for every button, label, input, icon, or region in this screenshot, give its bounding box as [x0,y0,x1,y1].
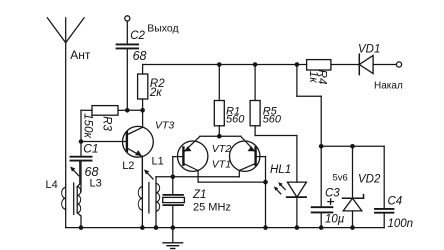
wire VT1 collector to Z1 node [173,171,240,177]
wire C2 bottom lead down to R3 node [126,48,128,110]
transformer core (L4/L3) [73,183,75,214]
svg-text:VD1: VD1 [358,43,380,55]
junction dots bottom rail [79,225,355,230]
transformer core [148,183,150,213]
junction dot VT1 base / VT2 collector [263,180,268,185]
junction dot [140,108,145,113]
wire bottom ground rail [66,227,385,229]
svg-text:560: 560 [263,114,282,126]
svg-text:Выход: Выход [147,23,178,35]
svg-text:HL1: HL1 [270,164,291,176]
svg-text:10µ: 10µ [325,213,345,225]
svg-text:2к: 2к [149,87,162,99]
svg-text:150к: 150к [81,113,93,138]
wire VT2 base to Z1 node [173,157,184,177]
wire VT2 collector down and right [198,171,265,183]
svg-text:100n: 100n [388,218,414,230]
wire R3 left lead down to C1 node [80,110,82,141]
wire filter rail [321,145,384,147]
svg-text:VT1: VT1 [212,158,231,170]
diode VD1 [359,54,373,74]
wire R5 to HL1 anode [255,136,297,183]
transistor VT2 [178,136,208,171]
wire C2 top lead [126,21,128,44]
svg-text:C3: C3 [325,188,340,200]
zener diode VD2 [343,146,364,227]
wire R4 node jog to filter node [297,65,321,147]
resistor R4 [307,60,331,70]
wire VT3 collector to node [142,110,144,127]
svg-text:VD2: VD2 [358,173,381,185]
svg-text:L3: L3 [90,178,102,190]
svg-text:L1: L1 [152,155,164,167]
wire emitter rail VT1/VT2 [200,135,241,137]
svg-text:R3: R3 [100,116,112,131]
wire VT3 emitter down to L2 [141,156,143,190]
LED HL1 [287,182,307,228]
svg-text:5v6: 5v6 [333,173,348,184]
svg-text:68: 68 [133,49,147,63]
tuning arrow (L4/L3) [70,167,79,176]
transistor VT1 [230,136,260,171]
svg-text:C2: C2 [130,30,145,42]
svg-text:L2: L2 [122,160,134,172]
junction dot [125,108,130,113]
capacitor C1 [71,142,92,193]
inductor L2 [138,156,142,227]
svg-text:Ант: Ант [70,48,91,62]
transistor VT3 [122,126,153,157]
resistor R1 [214,65,224,137]
capacitor C4 [375,146,393,227]
inductor L4 [62,185,66,228]
junction dot R4 left [295,62,300,67]
junction dot R5 top [253,62,258,67]
resistor R2 [138,65,148,111]
antenna [47,18,84,185]
junction dot R1 bottom [217,134,222,139]
svg-text:VT2: VT2 [212,143,231,155]
ground [163,228,183,249]
label + (C3 polarity) [328,199,333,204]
junction dot C1 node [79,139,84,144]
junction dot filter node [319,144,324,149]
capacitor C2 [117,44,139,48]
inductor L3 [77,161,81,228]
svg-text:VT3: VT3 [155,120,174,132]
resistor R3 [81,106,127,116]
resistor R5 [250,65,260,136]
svg-text:560: 560 [226,114,245,126]
wire VT3 base wire [81,141,126,143]
tuning arrow (L2/L1) [144,169,153,179]
junction dot VD2 top [350,144,355,149]
svg-text:Z1: Z1 [192,189,206,201]
LED arrows [274,182,285,194]
svg-text:L4: L4 [46,179,58,191]
svg-text:1к: 1к [307,71,319,83]
wire VT1 base down to ground rail [256,157,266,228]
junction dot Z1 top node [171,175,176,180]
terminal Накал [396,62,401,67]
svg-text:Накал: Накал [374,81,403,92]
svg-text:25 MHz: 25 MHz [193,201,231,213]
terminal Выход [125,16,130,21]
junction dot R1 top [217,62,222,67]
inductor L1 [156,177,173,228]
wire node R3-R2 [127,109,142,111]
wire top supply rail [143,64,397,66]
capacitor C3 (electrolytic) [312,146,333,227]
svg-text:C1: C1 [83,141,98,155]
svg-text:C4: C4 [388,196,403,208]
crystal Z1 [163,177,185,228]
